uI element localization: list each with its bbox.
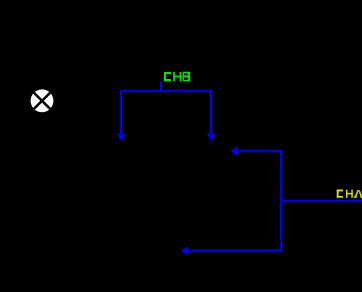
probe arrow CHA upper <box>231 146 238 156</box>
wire CHB stub <box>160 81 162 92</box>
pin notch on vertical bus <box>280 240 281 242</box>
wire CHA horizontal to right edge <box>280 200 362 202</box>
probe arrow CHA lower <box>181 246 188 255</box>
wire right vertical bus <box>280 150 282 251</box>
probe arrow CHB right <box>207 133 215 143</box>
node label CHA <box>337 190 362 198</box>
wire bottom horizontal <box>187 250 282 252</box>
wire upper horizontal to corner <box>237 150 283 152</box>
wire left vertical <box>120 90 122 134</box>
lamp DS1 <box>31 89 54 112</box>
wire right vertical <box>210 90 212 134</box>
probe arrow CHB left <box>117 133 125 141</box>
wire top horizontal <box>120 90 212 92</box>
node label CHB <box>164 72 190 81</box>
